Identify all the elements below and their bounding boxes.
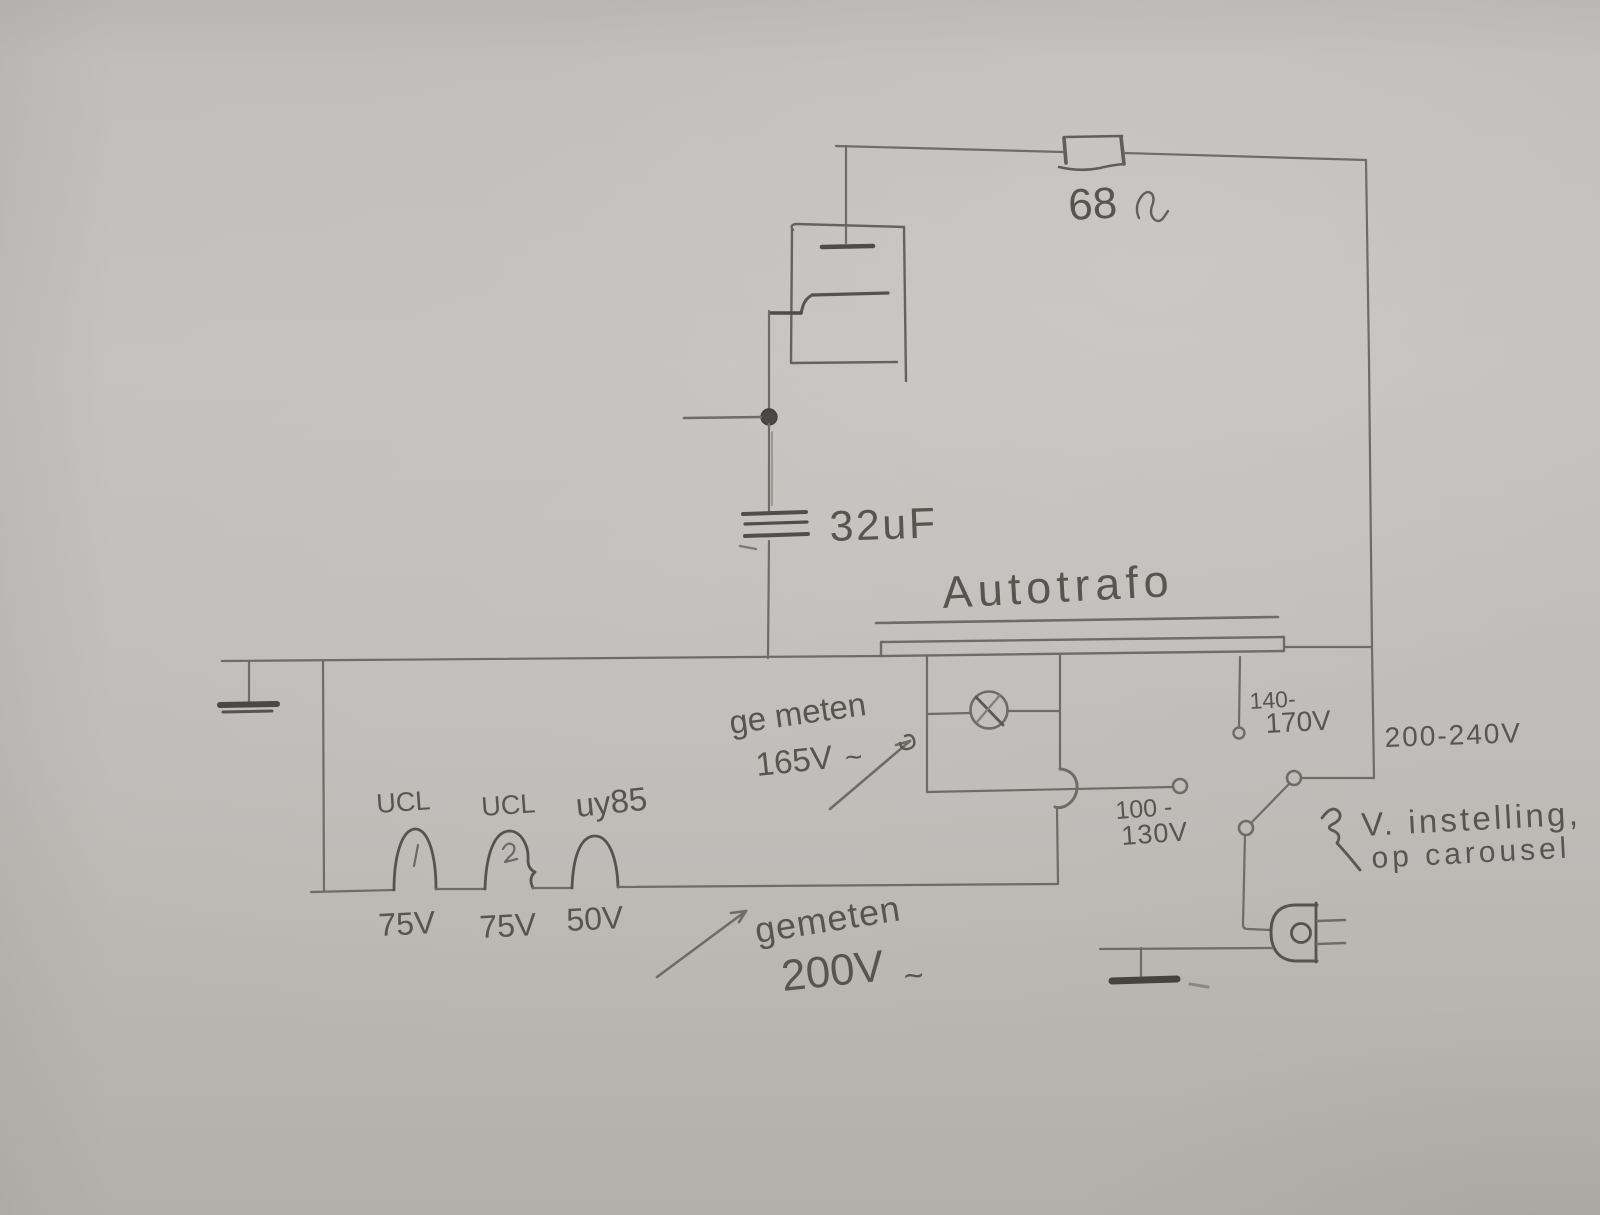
capacitor C1 32uF top plate — [743, 512, 807, 524]
ground symbol left stub — [248, 662, 250, 703]
resistor R1 68 ohm body — [1059, 136, 1124, 170]
wire heater branch left vertical — [323, 661, 324, 891]
label 200-240V — [1384, 717, 1522, 753]
svg-text:170V: 170V — [1265, 705, 1332, 739]
lamp L1 cross — [976, 697, 1003, 725]
svg-text:50V: 50V — [565, 899, 624, 938]
label 100-130V — [1114, 793, 1189, 851]
svg-text:ge meten: ge meten — [727, 685, 868, 741]
plug P1 pin circle — [1292, 924, 1311, 943]
value label 68 ohm — [1067, 178, 1118, 229]
capacitor small stray tick — [740, 546, 756, 549]
wire heater bottom row segment 2 — [436, 888, 485, 890]
plug prong lower — [1317, 943, 1345, 944]
wire main ground bus horizontal — [222, 656, 880, 661]
wire heater bottom row long segment to tap B — [618, 884, 1058, 887]
arrow gemeten 200V — [657, 911, 746, 977]
label 140-170V — [1249, 686, 1332, 739]
svg-text:UCL: UCL — [375, 785, 431, 819]
autotrafo label — [941, 555, 1175, 618]
wire right vertical 200-240V rail — [1366, 160, 1374, 778]
wire faint double stroke — [771, 432, 773, 505]
svg-text:165V: 165V — [754, 738, 835, 783]
svg-text:75V: 75V — [478, 906, 537, 945]
ground symbol left bar — [220, 704, 277, 705]
autotrafo top long line — [876, 617, 1278, 623]
triode grid bar — [812, 293, 888, 295]
triode anode plate — [822, 246, 873, 247]
svg-text:200-240V: 200-240V — [1384, 717, 1522, 753]
plug prong upper — [1317, 920, 1345, 921]
plug P1 face — [1315, 903, 1318, 962]
svg-text:~: ~ — [902, 956, 926, 996]
svg-text:200V: 200V — [779, 941, 887, 1001]
digit 1 inside UCL1 — [414, 845, 418, 866]
ground right stray dash — [1190, 984, 1208, 987]
wire tap C vertical — [1239, 657, 1240, 727]
terminal 100-130V circle — [1173, 779, 1187, 793]
wire top horizontal from tube anode to resistor — [836, 146, 1063, 152]
tube heater UY85 bump — [572, 836, 618, 888]
label V.instelling op carousel — [1360, 795, 1581, 875]
wire lamp left lead — [927, 713, 971, 714]
switch S1 upper contact circle — [1287, 771, 1301, 785]
wire tap B vertical lower — [1057, 808, 1058, 884]
wire junction to capacitor — [768, 424, 770, 512]
wire junction stub left — [684, 417, 761, 418]
svg-text:75V: 75V — [377, 904, 436, 943]
tube heater UCL1 bump — [394, 829, 436, 890]
svg-text:uy85: uy85 — [574, 780, 649, 824]
label gemeten 200V — [752, 887, 926, 1001]
svg-text:~: ~ — [843, 740, 864, 775]
triode grid bend — [801, 295, 812, 313]
label UCL 1 — [375, 780, 649, 945]
wire from resistor to top-right corner — [1124, 153, 1366, 160]
value label 32uF — [829, 499, 939, 551]
switch S1 lower contact circle — [1239, 821, 1253, 835]
triode grid lead — [770, 311, 801, 315]
digit 2 inside UCL2 — [503, 844, 517, 862]
svg-text:68: 68 — [1067, 178, 1118, 229]
wire capacitor to ground bus — [768, 541, 769, 658]
wire heater bottom row segment 1 — [311, 890, 394, 892]
wire heater bottom row segment 3 — [533, 887, 572, 889]
svg-text:UCL: UCL — [480, 788, 536, 822]
wire lamp right lead — [1008, 710, 1060, 712]
lamp L1 circle — [971, 692, 1008, 729]
arrow gemeten 165V — [830, 741, 910, 809]
squiggle arrow before V.instelling — [1322, 809, 1360, 870]
wire switch lower to plug — [1243, 835, 1271, 930]
capacitor C1 bottom plate — [745, 534, 808, 536]
node junction dot — [761, 409, 777, 425]
wire tap B vertical upper — [1059, 655, 1061, 769]
terminal 140-170V circle — [1234, 728, 1245, 739]
ground symbol right bar — [1112, 979, 1177, 981]
svg-text:32uF: 32uF — [829, 499, 939, 551]
plug P1 body — [1271, 905, 1317, 961]
tube heater UCL2 bump — [485, 831, 535, 889]
wire tap A vertical — [926, 657, 928, 792]
svg-text:Autotrafo: Autotrafo — [941, 555, 1175, 618]
svg-text:130V: 130V — [1120, 816, 1189, 851]
ground symbol right stub — [1140, 948, 1142, 976]
tube envelope V1 — [791, 224, 906, 381]
wire lamp bottom row to terminal — [927, 787, 1172, 792]
wire tap B hop over — [1055, 769, 1077, 808]
switch S1 arm — [1252, 784, 1289, 822]
wire cathode vertical upper — [768, 311, 770, 412]
autotrafo winding bar — [880, 637, 1284, 656]
label gemeten 165V — [727, 685, 868, 783]
wire right ground horizontal — [1100, 948, 1273, 949]
wire autotrafo right end to rail — [1285, 646, 1371, 648]
triode anode lead wire — [845, 146, 847, 243]
wire switch to rail — [1301, 777, 1374, 779]
